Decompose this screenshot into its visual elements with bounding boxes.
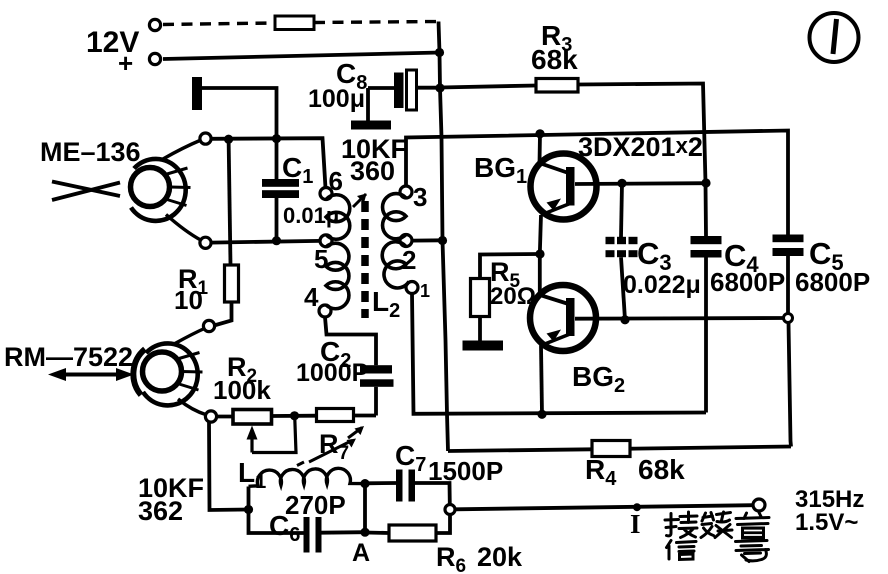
svg-text:4: 4 [304,282,319,312]
svg-text:5: 5 [314,244,328,274]
svg-text:6: 6 [329,166,343,196]
svg-text:1.5V~: 1.5V~ [795,509,858,536]
svg-text:2: 2 [402,245,416,275]
svg-text:6800P: 6800P [795,267,870,297]
svg-text:270P: 270P [285,490,346,520]
svg-text:362: 362 [138,496,183,526]
svg-text:3DX201x2: 3DX201x2 [578,132,703,162]
svg-text:360: 360 [350,156,395,186]
svg-text:0.01μ: 0.01μ [283,203,339,228]
svg-text:68k: 68k [531,44,578,75]
svg-text:6800P: 6800P [710,267,785,297]
svg-text:+: + [118,48,133,78]
svg-text:10: 10 [174,285,203,315]
svg-text:0.022μ: 0.022μ [623,271,701,299]
svg-text:1000P: 1000P [296,359,368,387]
svg-text:ME–136: ME–136 [40,137,141,167]
svg-text:68k: 68k [638,454,685,485]
svg-text:A: A [352,539,370,567]
svg-text:1: 1 [420,281,430,301]
svg-text:20k: 20k [477,542,523,572]
svg-text:I: I [630,509,641,539]
svg-text:100k: 100k [213,375,271,405]
svg-text:RM—7522: RM—7522 [4,342,133,372]
svg-text:3: 3 [413,182,427,212]
svg-text:100μ: 100μ [308,85,365,113]
